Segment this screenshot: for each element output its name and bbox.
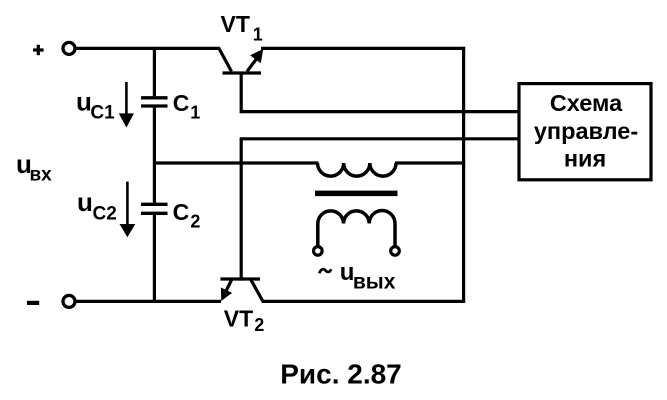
svg-text:2: 2 — [190, 211, 200, 231]
transformer secondary winding — [318, 211, 395, 247]
svg-text:Схема: Схема — [550, 90, 623, 116]
wire VT1 base lead down — [240, 73, 243, 113]
wire bottom right from VT2 collector to right rail — [263, 300, 466, 303]
svg-text:вых: вых — [353, 270, 396, 293]
capacitor C1 — [141, 98, 168, 106]
svg-text:C: C — [173, 199, 190, 225]
VT2 emitter arrow — [221, 288, 232, 302]
terminal + (open circle) — [63, 42, 75, 54]
wire capacitor branch upper — [153, 47, 156, 96]
wire primary right (transformer to right rail) — [395, 161, 465, 164]
wire VT2 base lead down — [240, 139, 243, 281]
wire capacitor branch middle — [153, 108, 156, 203]
secondary terminal right (open circle) — [391, 247, 400, 256]
wire bottom left from - terminal to VT2 emitter — [76, 300, 221, 303]
transistor VT2 — [220, 279, 263, 303]
svg-text:1: 1 — [253, 25, 263, 45]
transistor VT1 — [219, 48, 262, 74]
svg-text:VT: VT — [221, 11, 250, 37]
capacitor C2 — [141, 204, 168, 213]
svg-text:управле-: управле- — [534, 118, 638, 144]
wire top from + terminal to VT1 collector — [76, 47, 220, 50]
svg-text:2: 2 — [254, 315, 264, 335]
svg-text:вх: вх — [30, 164, 53, 185]
arrow u_C1 (voltage direction) — [125, 82, 128, 115]
secondary terminal left (open circle) — [314, 247, 323, 256]
terminal - (open circle) — [63, 295, 75, 307]
minus sign (input polarity -) — [27, 301, 39, 305]
plus sign (input polarity +) — [33, 45, 44, 55]
svg-text:1: 1 — [190, 102, 200, 122]
svg-text:u: u — [77, 187, 93, 217]
wire primary left (cap midpoint to transformer) — [153, 161, 319, 164]
arrow u_C2 (voltage direction) — [126, 182, 129, 226]
svg-text:VT: VT — [224, 306, 253, 332]
wire capacitor branch lower — [153, 215, 156, 303]
svg-text:C: C — [173, 90, 190, 116]
VT1 emitter arrow — [250, 49, 263, 63]
svg-text:ния: ния — [564, 146, 606, 172]
control box (Схема управления) — [519, 84, 651, 180]
svg-text:C2: C2 — [93, 204, 117, 225]
transformer core — [315, 191, 398, 197]
wire right rail vertical — [462, 47, 465, 303]
transformer T primary winding — [318, 163, 397, 176]
wire control 2 (VT2 base to control box) — [240, 137, 521, 140]
label ~ u_vyh (output voltage) — [319, 269, 331, 273]
wire control 1 (VT1 base to control box) — [240, 110, 521, 113]
svg-text:Рис. 2.87: Рис. 2.87 — [280, 359, 402, 390]
control box text — [534, 90, 638, 172]
svg-text:C1: C1 — [90, 102, 115, 123]
wire VT1 emitter to right rail — [261, 47, 465, 50]
